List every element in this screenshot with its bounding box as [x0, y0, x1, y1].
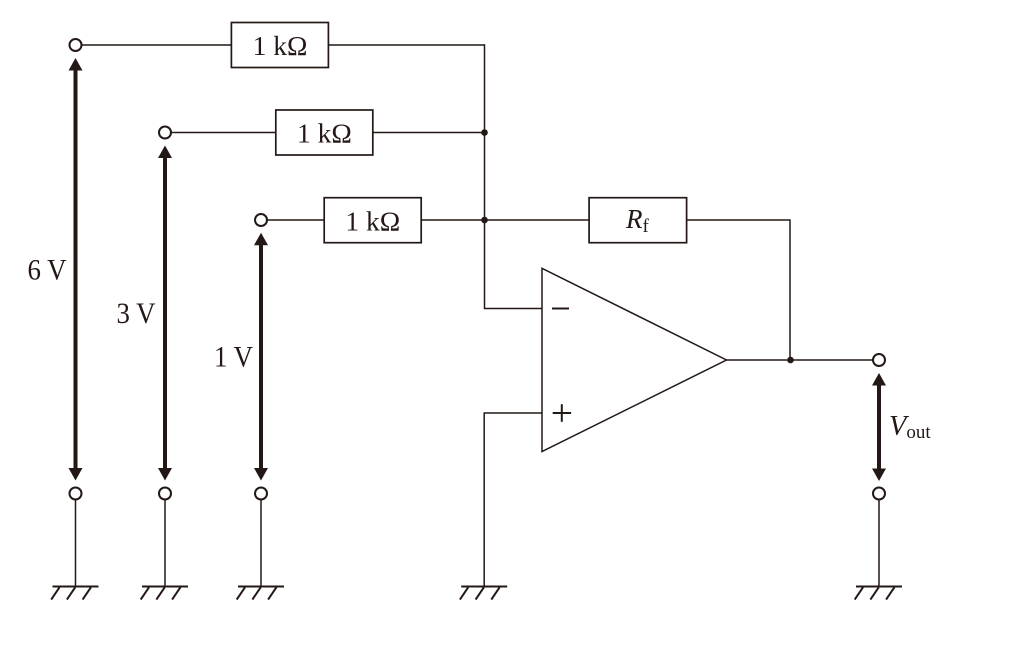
resistor R2 box: [276, 110, 373, 155]
wire stem terminal 3 to ground: [260, 500, 262, 587]
terminal node Vin3: [255, 214, 267, 226]
terminal node ground side output: [873, 488, 885, 500]
svg-text:3 V: 3 V: [117, 298, 156, 330]
wire row 3 (1V input through summing node to Rf): [267, 219, 589, 221]
ground symbol 1: [51, 587, 98, 600]
terminal node ground side 1: [70, 488, 82, 500]
wire output (op-amp apex to output terminal): [727, 359, 873, 361]
terminal node Vout (on output wire): [873, 354, 885, 366]
ground symbol 4 (op-amp non-inverting input): [460, 587, 507, 600]
wire stem terminal 2 to ground: [164, 500, 166, 587]
junction node row2 / summing line: [481, 129, 488, 136]
wire non-inverting input (op-amp plus down to ground): [484, 413, 542, 586]
resistor Rf box: [589, 198, 687, 243]
ground symbol 2: [141, 587, 188, 600]
wire stem output terminal to ground: [878, 500, 880, 587]
svg-text:1 kΩ: 1 kΩ: [345, 205, 400, 236]
svg-text:1 V: 1 V: [214, 341, 253, 373]
ground symbol 5 (output): [855, 587, 902, 600]
wire row 2 (3V input to summing node): [171, 132, 485, 134]
terminal node ground side 3: [255, 488, 267, 500]
op-amp U1: [542, 268, 727, 451]
svg-text:6 V: 6 V: [28, 254, 67, 286]
ground symbol 3: [237, 587, 284, 600]
svg-text:1 kΩ: 1 kΩ: [253, 30, 308, 61]
voltage arrow 3 V (double headed): [158, 146, 172, 481]
resistor R3 box: [324, 198, 421, 243]
op-amp plus pin mark: [553, 404, 571, 422]
wire row 1 (6V input to summing node): [82, 44, 485, 46]
junction node row3 / summing line: [481, 217, 488, 224]
terminal node ground side 2: [159, 488, 171, 500]
terminal node Vin2: [159, 127, 171, 139]
wire inverting input (summing node down to op-amp minus): [485, 44, 543, 308]
voltage arrow 1 V (double headed): [254, 233, 268, 481]
resistor R1 box: [231, 23, 328, 68]
svg-text:Vout: Vout: [889, 411, 931, 443]
svg-text:1 kΩ: 1 kΩ: [297, 118, 352, 149]
wire stem terminal 1 to ground: [75, 500, 77, 587]
terminal node Vin1 (top left): [70, 39, 82, 51]
op-amp minus pin mark: [552, 308, 569, 310]
wire feedback right of Rf, down to output node: [687, 220, 790, 360]
voltage arrow Vout (double headed): [872, 373, 886, 481]
voltage arrow 6 V (double headed): [69, 58, 83, 481]
junction node output / feedback: [787, 357, 794, 364]
